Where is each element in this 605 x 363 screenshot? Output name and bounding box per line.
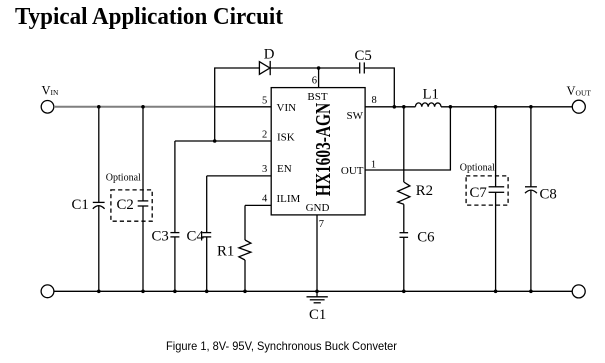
wire bottom ground rail (54, 290, 572, 292)
svg-text:BST: BST (307, 91, 327, 103)
svg-text:C6: C6 (417, 230, 434, 246)
wire OUT net (365, 107, 450, 170)
node junction R2 top (402, 105, 406, 109)
svg-text:HX1603-AGN: HX1603-AGN (312, 102, 335, 196)
svg-text:VIN: VIN (277, 102, 297, 114)
svg-text:C3: C3 (152, 229, 169, 245)
svg-text:C8: C8 (540, 187, 557, 203)
svg-text:C5: C5 (355, 48, 372, 64)
wire ISK net (175, 140, 271, 142)
node junction C6 bottom (402, 290, 406, 294)
svg-text:VIN: VIN (42, 84, 60, 98)
svg-text:D: D (264, 47, 275, 63)
svg-text:1: 1 (371, 160, 376, 171)
svg-text:8: 8 (372, 95, 377, 106)
wire BST stub (318, 68, 320, 88)
ground symbol (307, 291, 328, 323)
node junction C4 bottom (205, 290, 209, 294)
node junction pin7/rail (315, 290, 319, 294)
capacitor C1 (72, 107, 105, 291)
node junction C8 top (529, 105, 533, 109)
resistor R2 (398, 107, 433, 233)
capacitor C2 (optional) (117, 107, 149, 291)
svg-text:C2: C2 (117, 197, 134, 213)
wire GND stub pin7 (316, 215, 318, 291)
node junction C1 bottom (97, 290, 101, 294)
capacitor C3 (152, 141, 180, 291)
node junction C2 top (141, 105, 145, 109)
node junction R1 bottom (243, 290, 247, 294)
svg-text:ISK: ISK (277, 132, 295, 144)
optional box C2 (111, 190, 152, 221)
svg-text:Typical Application Circuit: Typical Application Circuit (15, 3, 284, 30)
capacitor C4 (187, 176, 212, 291)
diode D (259, 47, 274, 76)
terminal GND left (41, 285, 54, 298)
svg-text:C7: C7 (470, 185, 487, 201)
svg-text:OUT: OUT (341, 165, 364, 177)
svg-text:R1: R1 (217, 244, 234, 260)
node junction C1 top (97, 105, 101, 109)
node junction ISK/diode (213, 139, 217, 143)
terminal VOUT (572, 100, 585, 113)
svg-text:L1: L1 (423, 86, 439, 102)
svg-text:6: 6 (312, 76, 317, 87)
svg-text:SW: SW (347, 110, 364, 122)
wire diode cathode to C5 (270, 67, 360, 69)
svg-text:GND: GND (306, 202, 330, 214)
svg-text:C1: C1 (309, 307, 326, 323)
capacitor C8 (525, 107, 557, 291)
svg-text:R2: R2 (416, 183, 433, 199)
wire ILIM net (245, 204, 271, 206)
svg-text:Optional: Optional (106, 173, 141, 184)
svg-text:EN: EN (277, 163, 292, 175)
IC U1 HX1603-AGN (262, 76, 377, 231)
node junction C8 bottom (529, 290, 533, 294)
inductor L1 (415, 86, 441, 107)
optional box C7 (466, 176, 508, 205)
wire diode anode drop (215, 68, 260, 141)
terminal GND right (572, 285, 585, 298)
node junction C5/SW (393, 105, 397, 109)
svg-text:VOUT: VOUT (567, 84, 592, 98)
svg-text:3: 3 (262, 164, 267, 175)
resistor R1 (217, 205, 251, 291)
capacitor C7 (optional) (470, 107, 505, 291)
node junction L1 out (449, 105, 453, 109)
capacitor C5 (355, 48, 372, 74)
wire SW rail (365, 106, 415, 108)
wire EN net (207, 175, 272, 177)
node junction C3 bottom (173, 290, 177, 294)
terminal VIN (41, 101, 54, 114)
svg-text:Figure 1, 8V- 95V, Synchronous: Figure 1, 8V- 95V, Synchronous Buck Conv… (166, 340, 397, 353)
capacitor C6 (400, 230, 435, 292)
node junction C7 bottom (494, 290, 498, 294)
svg-text:C4: C4 (187, 229, 205, 245)
svg-text:Optional: Optional (460, 162, 495, 173)
svg-text:2: 2 (262, 130, 267, 141)
svg-text:5: 5 (262, 95, 267, 106)
svg-text:4: 4 (262, 194, 268, 205)
node junction BST stub (317, 66, 321, 70)
svg-text:7: 7 (319, 219, 324, 230)
svg-text:C1: C1 (72, 197, 89, 213)
wire VIN rail to IC (215, 106, 271, 108)
node junction C2 bottom (141, 290, 145, 294)
node junction C7 top (494, 105, 498, 109)
svg-text:ILIM: ILIM (277, 193, 301, 205)
wire C5 to SW node (364, 68, 394, 107)
wire VIN rail (gray) (54, 106, 215, 108)
